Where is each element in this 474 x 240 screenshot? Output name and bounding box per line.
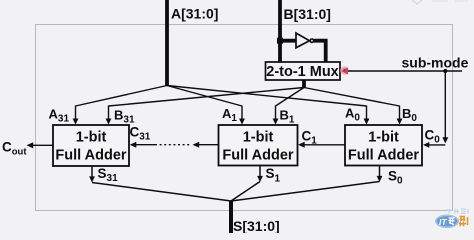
svg-text:2-to-1 Mux: 2-to-1 Mux <box>266 64 339 80</box>
svg-text:1-bit: 1-bit <box>368 130 399 146</box>
svg-text:S[31:0]: S[31:0] <box>233 218 280 233</box>
svg-text:IT: IT <box>439 217 447 227</box>
svg-text:Full Adder: Full Adder <box>348 148 420 164</box>
svg-text:Full Adder: Full Adder <box>222 148 294 164</box>
svg-text:Full Adder: Full Adder <box>55 148 127 164</box>
svg-text:A[31:0]: A[31:0] <box>171 5 218 21</box>
svg-text:1-bit: 1-bit <box>243 130 274 146</box>
svg-text:sub-mode: sub-mode <box>402 55 469 71</box>
svg-text:1-bit: 1-bit <box>76 130 107 146</box>
svg-text:B[31:0]: B[31:0] <box>284 6 331 22</box>
